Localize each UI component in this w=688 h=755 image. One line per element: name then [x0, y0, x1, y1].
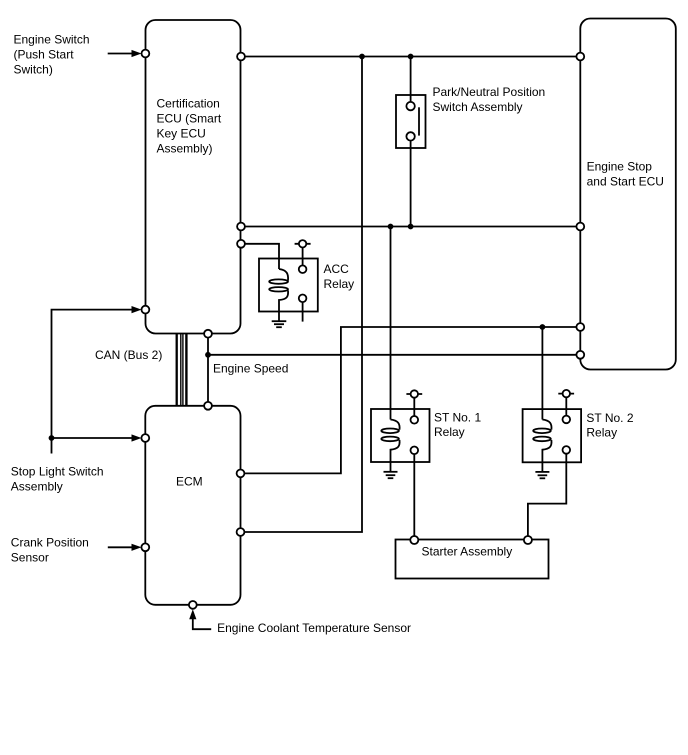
svg-text:Engine Switch: Engine Switch	[14, 32, 90, 46]
ACC relay coil	[279, 269, 288, 281]
ST No. 2 relay box	[523, 409, 582, 462]
wire: ACC relay contact feed	[302, 248, 304, 266]
wire: line B from Certification ECU to Engine Stop and Start ECU	[241, 226, 580, 228]
arrowhead: crank position sensor	[132, 544, 142, 551]
wire: ACC relay coil ground lead	[278, 311, 280, 321]
ECM box	[145, 406, 240, 605]
Park/Neutral Position Switch Assembly box	[396, 95, 426, 148]
svg-text:ECU (Smart: ECU (Smart	[157, 112, 222, 126]
terminal: ST No. 1 relay battery terminal	[406, 393, 422, 395]
svg-text:ACC: ACC	[324, 262, 350, 276]
Park/Neutral switch terminal circles	[406, 102, 414, 110]
Engine Stop and Start ECU box	[580, 19, 676, 370]
ground: ST No. 1 relay	[384, 471, 398, 473]
wire: ST No. 1 output to starter	[413, 454, 415, 540]
junction: line B at park/neutral	[408, 224, 414, 230]
ST No. 2 relay contact circles	[563, 416, 571, 424]
wire: ACC relay coil feed from Certification ECU	[241, 244, 279, 269]
ACC relay contact circles	[299, 265, 307, 273]
ST No. 1 relay box	[371, 409, 430, 462]
svg-text:Certification: Certification	[157, 97, 220, 111]
svg-text:Stop Light Switch: Stop Light Switch	[11, 464, 104, 478]
junction: stop light switch node	[49, 435, 55, 441]
svg-text:Park/Neutral Position: Park/Neutral Position	[433, 85, 546, 99]
svg-text:(Push Start: (Push Start	[14, 47, 75, 61]
svg-text:Crank Position: Crank Position	[11, 536, 89, 550]
junction: line B at ST No. 1	[388, 224, 394, 230]
terminal circles on Certification ECU	[142, 50, 150, 58]
terminal circles on Starter Assembly	[410, 536, 418, 544]
arrowhead: into Certification ECU	[132, 306, 142, 313]
svg-text:CAN (Bus 2): CAN (Bus 2)	[95, 348, 162, 362]
wire: engine coolant temperature sensor lead	[193, 617, 211, 629]
svg-text:Engine Stop: Engine Stop	[587, 160, 653, 174]
terminal: ACC relay battery terminal	[295, 243, 311, 245]
wire: drop from line C to ST No. 2 relay coil	[541, 327, 543, 420]
terminal circles on Engine Stop and Start ECU	[576, 53, 584, 61]
svg-text:and Start ECU: and Start ECU	[587, 175, 664, 189]
CAN (Bus 2) lines between Certification ECU and ECM	[176, 334, 178, 406]
wire: top bus line A from Certification ECU to Engine Stop and Start ECU	[241, 56, 580, 58]
svg-text:ST No. 2: ST No. 2	[586, 411, 633, 425]
wire: ST No. 1 coil ground lead	[390, 462, 392, 472]
terminal circles on ECM	[204, 402, 212, 410]
svg-text:Relay: Relay	[586, 425, 617, 439]
junction: line A at park/neutral	[408, 54, 414, 60]
svg-text:ECM: ECM	[176, 475, 203, 489]
wire: vertical drop x=362 from line A to ECM right terminal	[241, 57, 362, 533]
Certification ECU (Smart Key ECU Assembly) box	[146, 20, 241, 334]
svg-text:ST No. 1: ST No. 1	[434, 411, 481, 425]
wire: from Park/Neutral switch bottom to line B	[410, 139, 412, 227]
Park/Neutral switch contact bar	[418, 107, 420, 135]
ground: ACC relay	[272, 320, 287, 322]
svg-text:Relay: Relay	[324, 277, 355, 291]
svg-text:Starter Assembly: Starter Assembly	[422, 545, 513, 559]
wire: ST No. 1 contact feed	[413, 398, 415, 416]
svg-text:Switch): Switch)	[14, 62, 53, 76]
wire: ST No. 2 contact feed	[565, 397, 567, 415]
Starter Assembly box	[396, 540, 549, 579]
wire: line C from ECM to Engine Stop and Start ECU	[241, 327, 580, 473]
ACC relay box	[259, 259, 318, 312]
wire: engine speed vertical from Certification ECU to ECM	[207, 334, 209, 406]
svg-text:Key ECU: Key ECU	[157, 127, 206, 141]
svg-text:Engine Coolant Temperature Sen: Engine Coolant Temperature Sensor	[217, 621, 411, 635]
arrowhead: Engine Switch	[132, 50, 142, 57]
arrowhead: into ECM	[132, 434, 142, 441]
svg-text:Engine Speed: Engine Speed	[213, 362, 288, 376]
svg-text:Sensor: Sensor	[11, 551, 49, 565]
svg-text:Assembly: Assembly	[11, 479, 63, 493]
ST No. 1 relay contact circles	[411, 416, 419, 424]
ground: ST No. 2 relay	[535, 471, 549, 473]
wire: ST No. 2 coil ground lead	[541, 462, 543, 472]
wire: ST No. 2 output to starter	[528, 454, 566, 540]
wire: stop light switch branch to ECM	[52, 437, 135, 439]
wire: drop from line B to ST No. 1 relay coil	[390, 227, 392, 420]
junction: line C to ST No. 2	[540, 324, 546, 330]
wire: stop light switch branch to Certification ECU	[52, 310, 135, 454]
wire: ACC relay contact output stub	[302, 302, 304, 322]
ST No. 2 relay coil	[542, 420, 551, 430]
junction: engine speed node	[205, 352, 211, 358]
wire: vertical from line A into Park/Neutral switch	[410, 57, 412, 104]
svg-text:Switch Assembly: Switch Assembly	[433, 100, 523, 114]
junction: line A at x=362	[359, 54, 365, 60]
wire: crank position sensor lead into ECM	[108, 546, 134, 548]
svg-text:Assembly): Assembly)	[157, 142, 213, 156]
wire: engine speed line to Engine Stop and Start ECU	[208, 354, 580, 356]
terminal: ST No. 2 relay battery terminal	[558, 393, 574, 395]
wire: Engine Switch lead into Certification ECU	[108, 53, 134, 55]
arrowhead: coolant sensor into ECM	[189, 609, 196, 619]
svg-text:Relay: Relay	[434, 425, 465, 439]
ST No. 1 relay coil	[391, 420, 400, 430]
